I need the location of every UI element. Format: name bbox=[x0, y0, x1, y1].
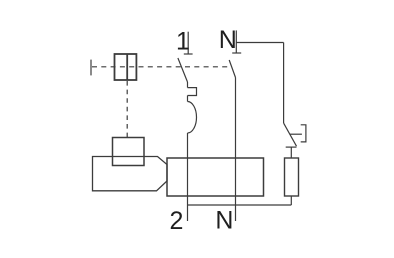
pole 1 blade bbox=[178, 58, 188, 82]
test fixed contact bar bbox=[286, 146, 297, 148]
svg-text:N: N bbox=[219, 26, 237, 54]
test wire vertical bbox=[283, 43, 285, 124]
test return wire bbox=[188, 204, 292, 206]
pole N blade bbox=[229, 60, 235, 78]
terminal N contact tick bbox=[232, 52, 241, 54]
mechanical linkage dashed line bbox=[92, 66, 231, 68]
terminal N top line bbox=[235, 30, 237, 53]
resistor bottom lead bbox=[290, 196, 292, 205]
current transformer toroid bbox=[167, 158, 264, 196]
linkage end tick bbox=[90, 60, 92, 76]
pole 1 conductor lower bbox=[187, 133, 189, 221]
test button cap bracket bbox=[301, 125, 306, 142]
terminal 1 contact tick bbox=[184, 53, 193, 55]
magnetic trip arc bbox=[188, 102, 197, 134]
thermal trip notch bbox=[188, 88, 197, 96]
relay box U1 bbox=[115, 54, 137, 80]
vertical linkage dashed wire bbox=[126, 81, 128, 138]
trip coil box bbox=[113, 138, 145, 166]
pole 1 conductor upper bbox=[187, 82, 189, 88]
relay box divider bbox=[126, 54, 128, 80]
svg-text:N: N bbox=[215, 207, 233, 235]
relay tag polygon bbox=[93, 157, 168, 191]
test wire horizontal from N bbox=[236, 42, 283, 44]
test resistor R bbox=[285, 158, 299, 196]
svg-text:2: 2 bbox=[170, 207, 184, 235]
svg-text:1: 1 bbox=[176, 28, 190, 56]
pole 1 conductor middle bbox=[187, 96, 189, 102]
resistor top lead bbox=[290, 147, 292, 158]
test button actuator rod bbox=[290, 133, 302, 135]
terminal 1 line bbox=[187, 32, 189, 54]
pole N conductor bbox=[235, 78, 237, 222]
test button blade bbox=[284, 123, 297, 146]
